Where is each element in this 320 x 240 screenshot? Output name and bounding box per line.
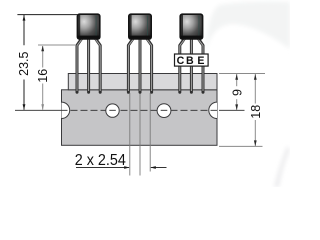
background swoosh top-right: [206, 1, 290, 54]
adhesive tape top band: [68, 74, 217, 90]
edge notch left: [53, 102, 69, 118]
svg-text:C: C: [177, 55, 185, 67]
svg-text:9: 9: [230, 89, 244, 96]
svg-text:2 x 2.54: 2 x 2.54: [75, 152, 126, 169]
lead extension lines (middle transistor): [130, 93, 150, 176]
transistor Q3 body (TO-92 package): [180, 14, 202, 39]
svg-text:16: 16: [36, 69, 50, 83]
dimension 2 x 2.54: [75, 152, 167, 169]
transistor Q3: [180, 14, 203, 92]
background curve bottom-right: [274, 146, 290, 187]
sprocket hole 2 center dash: [161, 109, 168, 111]
transistor Q2: [128, 14, 151, 92]
transistor Q1 leads (C, B, E): [77, 38, 100, 93]
transistor Q2 body (TO-92 package): [129, 14, 151, 39]
dimension 23.5: [17, 15, 78, 110]
svg-text:E: E: [197, 55, 204, 67]
transistor Q3 leads (C, B, E): [180, 38, 203, 93]
sprocket hole 2: [157, 104, 171, 118]
svg-text:18: 18: [249, 105, 263, 119]
carrier tape main band: [62, 90, 218, 146]
sprocket hole 1 center dash: [109, 109, 116, 111]
transistor Q1 body (TO-92 package): [77, 14, 99, 39]
dimension 9: [219, 74, 265, 111]
edge notch right: [209, 102, 225, 118]
dimension 18: [219, 74, 263, 146]
sprocket hole 1: [106, 104, 119, 117]
center line (dash-dot): [15, 109, 245, 111]
C B E label box: [175, 54, 209, 67]
svg-text:23.5: 23.5: [17, 51, 31, 75]
transistor Q1: [77, 14, 100, 92]
svg-text:B: B: [186, 55, 194, 67]
dimension 16: [36, 45, 76, 110]
transistor Q2 leads (C, B, E): [128, 38, 151, 93]
